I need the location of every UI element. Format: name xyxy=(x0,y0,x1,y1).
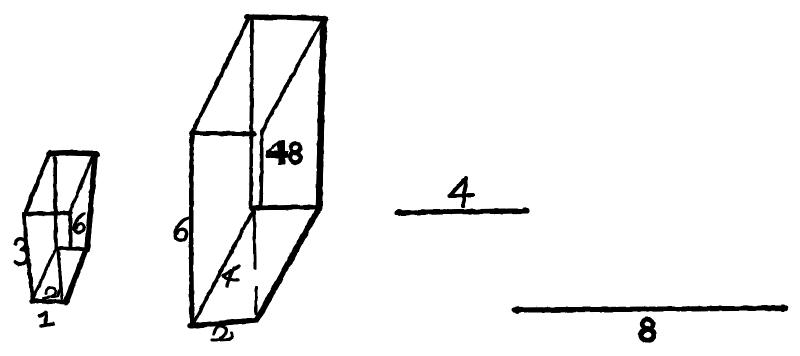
large box: bottom-right thick diagonal xyxy=(258,208,319,318)
small box: top-left diagonal edge xyxy=(25,152,50,215)
label 6 (small box volume) xyxy=(74,214,84,232)
small box: mid horizontal edge xyxy=(24,213,71,214)
large box: mid horizontal edge xyxy=(192,133,254,134)
segment of length 8 xyxy=(514,308,786,310)
small box: right edge xyxy=(87,156,95,250)
small box: vertical edge A xyxy=(55,158,56,247)
label 1 (small box width) xyxy=(40,312,53,326)
small box: vertical edge B xyxy=(70,212,71,246)
large box: bottom edge xyxy=(190,320,257,326)
large box: left edge xyxy=(189,133,194,325)
small box: right-face bottom edge xyxy=(56,248,88,249)
label 2 (large box width) xyxy=(212,326,232,340)
large box: lower vertical edge (broken) xyxy=(254,212,256,313)
small box: left edge xyxy=(24,214,33,301)
label 4 (large box depth, script) xyxy=(223,266,239,286)
large box: vertical edge A xyxy=(251,21,252,209)
small box: bottom edge xyxy=(32,301,66,302)
large box: inner top-right diagonal xyxy=(262,21,322,131)
small box: inner top-right diagonal xyxy=(70,158,92,212)
label 3 (small box height) xyxy=(15,239,27,264)
label 4 (over short segment) xyxy=(450,178,473,206)
label 8 (under long segment) xyxy=(642,319,653,329)
large box: right-face bottom edge xyxy=(251,207,319,208)
segment of length 4 xyxy=(397,211,527,213)
label 48 (large box volume) xyxy=(266,140,288,165)
large box: top-left diagonal edge xyxy=(192,17,249,133)
small box: bottom-right thick diagonal xyxy=(66,250,86,302)
label 6 (large box height) xyxy=(175,218,190,240)
small box: lower vertical edge xyxy=(58,250,62,298)
large box: bottom-left inner diagonal xyxy=(193,209,254,324)
small box: top edge xyxy=(49,153,97,154)
small box: bottom-left inner diagonal xyxy=(33,248,56,299)
label 2 (small box depth) xyxy=(44,288,59,298)
large box: top edge xyxy=(247,17,326,19)
large box: right edge xyxy=(319,19,324,208)
large box: vertical edge B xyxy=(261,131,262,208)
